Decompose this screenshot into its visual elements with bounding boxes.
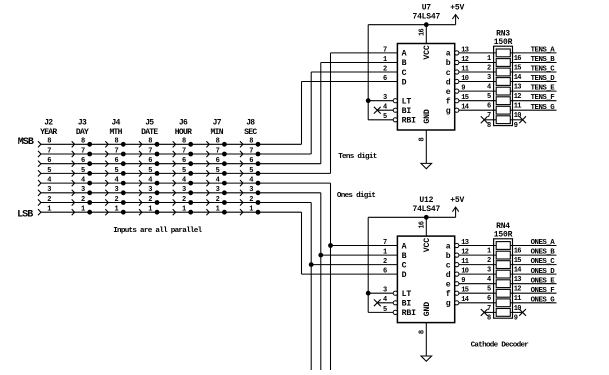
svg-text:5: 5: [487, 93, 491, 101]
svg-text:ONES_B: ONES_B: [531, 249, 556, 257]
svg-text:2: 2: [148, 196, 152, 204]
svg-text:TENS_B: TENS_B: [531, 56, 556, 64]
svg-text:c: c: [446, 69, 451, 78]
svg-text:11: 11: [514, 103, 522, 111]
svg-text:BI: BI: [402, 107, 412, 116]
svg-text:6: 6: [487, 295, 491, 303]
svg-text:e: e: [446, 281, 451, 290]
svg-text:8: 8: [81, 138, 85, 146]
svg-text:10: 10: [514, 112, 522, 120]
svg-text:7: 7: [487, 112, 491, 120]
svg-text:7: 7: [383, 46, 387, 54]
svg-text:3: 3: [148, 186, 152, 194]
svg-text:1: 1: [383, 56, 387, 64]
svg-text:D: D: [402, 78, 407, 87]
svg-text:MTH: MTH: [109, 128, 122, 137]
svg-text:16: 16: [514, 248, 522, 256]
svg-text:1: 1: [487, 55, 491, 63]
svg-text:TENS_C: TENS_C: [531, 66, 556, 74]
svg-text:4: 4: [249, 177, 253, 185]
svg-text:5: 5: [115, 167, 119, 175]
svg-text:6: 6: [115, 157, 119, 165]
svg-text:LT: LT: [402, 98, 412, 107]
svg-text:A: A: [402, 242, 407, 251]
svg-text:TENS_E: TENS_E: [531, 85, 556, 93]
svg-text:10: 10: [514, 305, 522, 313]
svg-text:7: 7: [115, 147, 119, 155]
svg-text:15: 15: [514, 257, 522, 265]
svg-text:C: C: [402, 261, 407, 270]
svg-text:f: f: [446, 97, 451, 107]
svg-text:J5: J5: [145, 119, 154, 128]
svg-text:1: 1: [249, 206, 253, 214]
svg-text:ONES_A: ONES_A: [531, 239, 556, 247]
svg-text:C: C: [402, 69, 407, 78]
svg-text:8: 8: [249, 138, 253, 146]
svg-text:6: 6: [81, 157, 85, 165]
svg-text:5: 5: [216, 167, 220, 175]
svg-text:Ones digit: Ones digit: [337, 192, 376, 200]
svg-text:DAY: DAY: [76, 128, 89, 137]
svg-text:5: 5: [81, 167, 85, 175]
svg-text:2: 2: [383, 65, 387, 73]
svg-text:GND: GND: [423, 302, 432, 317]
svg-text:a: a: [446, 50, 451, 59]
svg-text:8: 8: [182, 138, 186, 146]
svg-text:9: 9: [514, 122, 518, 130]
svg-text:TENS_G: TENS_G: [531, 104, 556, 112]
svg-text:LSB: LSB: [17, 209, 33, 220]
svg-text:d: d: [446, 270, 451, 280]
svg-text:8: 8: [47, 138, 51, 146]
svg-text:6: 6: [249, 157, 253, 165]
svg-text:c: c: [446, 261, 451, 270]
svg-text:b: b: [446, 58, 451, 68]
svg-text:13: 13: [514, 276, 522, 284]
svg-text:1: 1: [115, 206, 119, 214]
svg-text:2: 2: [249, 196, 253, 204]
svg-text:A: A: [402, 50, 407, 59]
svg-text:1: 1: [81, 206, 85, 214]
svg-text:5: 5: [148, 167, 152, 175]
svg-text:16: 16: [418, 29, 426, 37]
svg-text:TENS_D: TENS_D: [531, 75, 556, 83]
svg-text:8: 8: [115, 138, 119, 146]
svg-text:3: 3: [216, 186, 220, 194]
svg-text:74LS47: 74LS47: [412, 13, 440, 22]
svg-text:GND: GND: [423, 109, 432, 124]
svg-text:ONES_C: ONES_C: [531, 258, 556, 266]
svg-text:B: B: [402, 59, 407, 68]
svg-text:RBI: RBI: [402, 117, 417, 126]
svg-text:4: 4: [487, 84, 491, 92]
svg-text:8: 8: [148, 138, 152, 146]
svg-text:7: 7: [148, 147, 152, 155]
svg-text:2: 2: [487, 65, 491, 73]
svg-text:8: 8: [216, 138, 220, 146]
svg-text:6: 6: [383, 75, 387, 83]
svg-text:2: 2: [115, 196, 119, 204]
svg-text:16: 16: [418, 221, 426, 229]
svg-text:1: 1: [47, 206, 51, 214]
svg-text:7: 7: [216, 147, 220, 155]
svg-text:ONES_G: ONES_G: [531, 296, 556, 304]
svg-text:ONES_E: ONES_E: [531, 277, 556, 285]
svg-text:SEC: SEC: [244, 128, 257, 137]
svg-text:+5V: +5V: [450, 196, 464, 205]
svg-text:4: 4: [148, 177, 152, 185]
svg-text:5: 5: [182, 167, 186, 175]
svg-text:U12: U12: [419, 196, 433, 205]
svg-text:5: 5: [47, 167, 51, 175]
svg-text:VCC: VCC: [423, 238, 432, 253]
svg-text:5: 5: [487, 286, 491, 294]
svg-text:2: 2: [182, 196, 186, 204]
svg-text:2: 2: [47, 196, 51, 204]
svg-text:YEAR: YEAR: [40, 128, 57, 137]
svg-text:1: 1: [182, 206, 186, 214]
svg-text:d: d: [446, 77, 451, 87]
svg-text:7: 7: [383, 239, 387, 247]
svg-text:3: 3: [115, 186, 119, 194]
svg-text:14: 14: [514, 267, 522, 275]
svg-text:e: e: [446, 88, 451, 97]
svg-text:12: 12: [514, 286, 522, 294]
svg-text:8: 8: [419, 137, 427, 141]
svg-text:B: B: [402, 252, 407, 261]
svg-text:13: 13: [514, 84, 522, 92]
svg-text:7: 7: [182, 147, 186, 155]
svg-text:2: 2: [216, 196, 220, 204]
svg-text:1: 1: [383, 249, 387, 257]
svg-text:3: 3: [182, 186, 186, 194]
svg-text:8: 8: [419, 330, 427, 334]
svg-text:16: 16: [514, 55, 522, 63]
svg-text:6: 6: [148, 157, 152, 165]
svg-text:g: g: [446, 300, 451, 309]
svg-text:Inputs are all parallel: Inputs are all parallel: [113, 227, 202, 235]
svg-text:6: 6: [216, 157, 220, 165]
svg-text:14: 14: [514, 74, 522, 82]
svg-text:J2: J2: [44, 119, 53, 128]
svg-text:4: 4: [115, 177, 119, 185]
svg-text:15: 15: [514, 65, 522, 73]
svg-text:7: 7: [81, 147, 85, 155]
svg-text:D: D: [402, 271, 407, 280]
svg-text:4: 4: [216, 177, 220, 185]
svg-text:1: 1: [216, 206, 220, 214]
svg-text:11: 11: [514, 295, 522, 303]
svg-text:6: 6: [383, 268, 387, 276]
svg-text:b: b: [446, 251, 451, 261]
svg-text:HOUR: HOUR: [175, 128, 192, 137]
svg-text:3: 3: [487, 267, 491, 275]
svg-text:6: 6: [47, 157, 51, 165]
svg-text:12: 12: [514, 93, 522, 101]
svg-text:6: 6: [487, 103, 491, 111]
svg-text:1: 1: [148, 206, 152, 214]
svg-text:7: 7: [47, 147, 51, 155]
svg-text:74LS47: 74LS47: [412, 205, 440, 214]
svg-text:U7: U7: [422, 3, 432, 12]
svg-text:2: 2: [81, 196, 85, 204]
svg-text:MSB: MSB: [18, 137, 34, 148]
svg-text:J6: J6: [179, 119, 188, 128]
svg-text:4: 4: [81, 177, 85, 185]
svg-text:J7: J7: [213, 119, 222, 128]
svg-text:DATE: DATE: [141, 128, 158, 137]
svg-text:a: a: [446, 242, 451, 251]
svg-text:VCC: VCC: [423, 45, 432, 60]
svg-text:+5V: +5V: [450, 4, 464, 13]
svg-text:3: 3: [249, 186, 253, 194]
svg-text:LT: LT: [402, 290, 412, 299]
svg-text:J8: J8: [246, 119, 255, 128]
svg-text:2: 2: [487, 257, 491, 265]
svg-text:ONES_F: ONES_F: [531, 287, 555, 295]
svg-text:9: 9: [514, 314, 518, 322]
svg-text:7: 7: [249, 147, 253, 155]
svg-text:3: 3: [487, 74, 491, 82]
svg-text:Tens digit: Tens digit: [338, 153, 377, 161]
svg-text:6: 6: [182, 157, 186, 165]
svg-text:4: 4: [47, 177, 51, 185]
svg-text:4: 4: [182, 177, 186, 185]
svg-text:TENS_A: TENS_A: [531, 47, 556, 55]
svg-text:Cathode Decoder: Cathode Decoder: [471, 341, 530, 349]
svg-text:RBI: RBI: [402, 309, 417, 318]
svg-text:f: f: [446, 289, 451, 299]
svg-text:1: 1: [487, 248, 491, 256]
svg-text:5: 5: [249, 167, 253, 175]
svg-text:150R: 150R: [494, 230, 513, 239]
svg-text:TENS_F: TENS_F: [531, 94, 555, 102]
svg-text:J3: J3: [78, 119, 87, 128]
svg-text:BI: BI: [402, 300, 412, 309]
svg-text:g: g: [446, 107, 451, 116]
svg-text:MIN: MIN: [211, 128, 224, 137]
svg-text:150R: 150R: [494, 38, 513, 47]
svg-text:J4: J4: [111, 119, 120, 128]
svg-text:4: 4: [487, 276, 491, 284]
svg-text:3: 3: [81, 186, 85, 194]
svg-text:7: 7: [487, 305, 491, 313]
svg-text:2: 2: [383, 258, 387, 266]
svg-text:3: 3: [47, 186, 51, 194]
svg-text:ONES_D: ONES_D: [531, 268, 556, 276]
